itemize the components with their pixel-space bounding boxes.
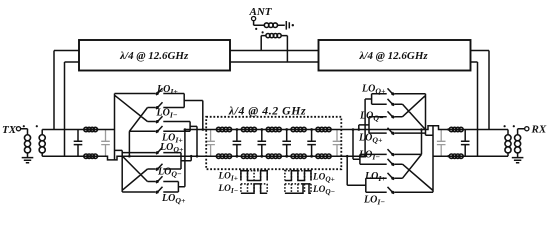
svg-text:ANT: ANT (249, 6, 273, 18)
svg-text:LOI−: LOI− (218, 184, 239, 195)
svg-text:λ/4 @ 12.6GHz: λ/4 @ 12.6GHz (119, 50, 189, 62)
svg-text:λ/4 @ 4.2 GHz: λ/4 @ 4.2 GHz (228, 104, 306, 118)
svg-text:RX: RX (531, 124, 547, 136)
svg-text:λ/4 @ 12.6GHz: λ/4 @ 12.6GHz (359, 50, 429, 62)
svg-text:TX: TX (2, 124, 17, 136)
svg-text:LOI+: LOI+ (218, 171, 238, 182)
svg-text:LOQ−: LOQ− (312, 185, 335, 196)
svg-text:LOQ+: LOQ+ (312, 172, 335, 183)
